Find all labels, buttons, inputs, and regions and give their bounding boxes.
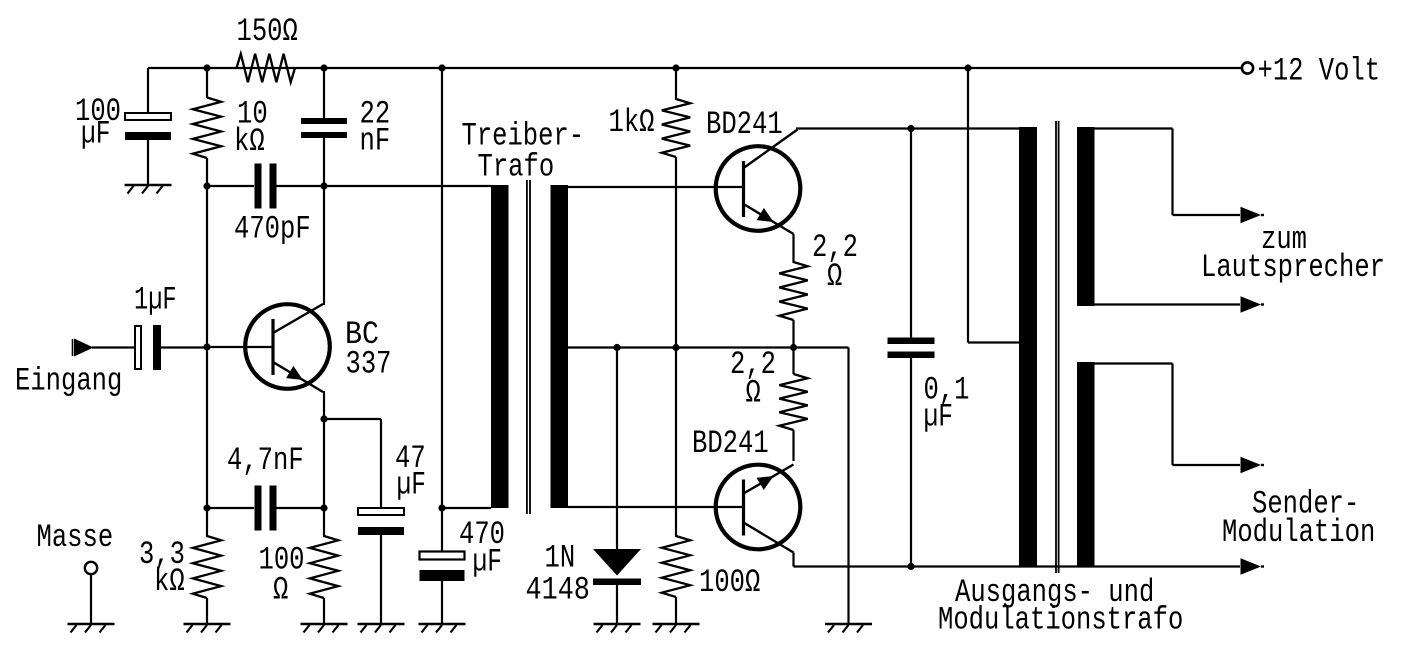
resistor R 2,2 upper: [779, 262, 807, 320]
svg-text:Lautsprecher: Lautsprecher: [1201, 249, 1385, 286]
capacitor C 470uF: [420, 552, 465, 582]
wire R 2,2 lower to Q3 emitter: [792, 430, 794, 461]
svg-text:470pF: 470pF: [234, 211, 311, 248]
resistor R 150: [237, 54, 296, 82]
arrow sender lower: [1241, 558, 1265, 575]
ground under 47uF: [358, 624, 405, 633]
ground under diode: [594, 624, 641, 633]
wire emitter node down: [323, 419, 325, 508]
label +12 Volt: [1258, 53, 1381, 90]
wire Q3 collector down to bottom rail: [792, 553, 794, 567]
label 0,1 uF: [924, 372, 970, 436]
arrow speaker upper: [1241, 207, 1265, 224]
wire base to Q1: [207, 346, 273, 348]
wire Q2 collector to T2: [744, 129, 1020, 169]
svg-text:1µF: 1µF: [134, 282, 177, 319]
wire center node to R 2,2 lower: [792, 348, 794, 375]
svg-text:Modulationstrafo: Modulationstrafo: [938, 602, 1183, 639]
node collector line/C 0,1uF: [907, 125, 914, 132]
capacitor C 22nF: [301, 118, 347, 138]
label Sender- Modulation: [1222, 486, 1375, 552]
wire C 470uF to ground: [441, 581, 443, 624]
capacitor C 1uF: [135, 325, 161, 370]
node collector junction: [320, 182, 327, 189]
ground under 100uF: [125, 185, 172, 194]
wire 442 to primary bottom: [442, 507, 491, 509]
node emitter/4,7nF: [320, 504, 327, 511]
capacitor C 47uF: [358, 508, 404, 535]
svg-text:kΩ: kΩ: [154, 563, 185, 600]
resistor R 100 right: [662, 536, 690, 597]
wire center node to ground drop: [794, 348, 849, 625]
wire emitter node to C 47uF: [324, 419, 381, 508]
terminal Masse: [85, 562, 97, 574]
wire T1 secondary top to Q2 base: [568, 186, 743, 188]
svg-text:Ω: Ω: [273, 572, 288, 609]
svg-text:100Ω: 100Ω: [699, 564, 760, 601]
svg-text:Trafo: Trafo: [478, 149, 555, 186]
label Masse: [37, 519, 114, 556]
wire T1 center tap: [568, 346, 794, 348]
wire +12V top rail: [148, 67, 1241, 69]
resistor R 100 left: [310, 536, 338, 598]
label 150 Ohm: [237, 13, 298, 50]
svg-text:+12 Volt: +12 Volt: [1258, 53, 1381, 90]
wire bottom rail: [794, 565, 1241, 567]
wire input to C 1uF: [92, 346, 135, 348]
svg-text:Ω: Ω: [827, 258, 842, 295]
wire C 100uF to ground: [147, 135, 149, 185]
capacitor C 4,7nF: [255, 486, 277, 531]
label Eingang: [15, 363, 122, 400]
label 2,2 Ohm lower: [730, 346, 776, 412]
node A junction 10k/470pF: [203, 182, 210, 189]
wire C 4,7nF to emitter column: [277, 507, 325, 509]
label Ausgangs- und Modulationstrafo: [938, 574, 1183, 639]
label Treiber-Trafo: [462, 118, 585, 186]
svg-text:BD241: BD241: [706, 106, 783, 143]
node bottom rail/C 0,1uF: [907, 563, 914, 570]
svg-text:nF: nF: [360, 123, 391, 160]
label 100 Ohm left: [259, 542, 305, 609]
node rail/968: [964, 64, 971, 71]
wire Q2 emitter to R 2,2 upper: [792, 234, 794, 263]
terminal input dash: [72, 339, 74, 356]
node base junction: [203, 343, 210, 350]
label 470 uF: [459, 516, 505, 581]
label 470pF: [234, 211, 311, 248]
transformer T2 core: [1056, 121, 1059, 573]
wire to C 0,1uF: [910, 129, 912, 339]
label 10 kOhm: [234, 96, 268, 161]
node center/100R: [672, 344, 679, 351]
label 100 uF: [75, 93, 121, 153]
terminal +12 Volt: [1242, 62, 1253, 73]
wire rail to T2 primary center: [968, 68, 1019, 343]
label 3,3 kOhm: [139, 536, 185, 600]
ground under Masse: [68, 624, 115, 633]
label 22 nF: [360, 96, 391, 160]
wire C 47uF to ground: [380, 532, 382, 624]
wire rail to C 100uF: [147, 68, 149, 113]
wire T1 secondary bottom to Q3 base: [568, 506, 743, 508]
svg-text:µF: µF: [397, 467, 426, 504]
label 1kOhm: [609, 104, 655, 141]
wire R 100 left to ground: [323, 598, 325, 624]
wire collector node down to Q1: [323, 186, 325, 305]
transformer T1 secondary winding: [551, 185, 569, 508]
label 100 Ohm right: [699, 564, 760, 601]
wire node A down to base: [206, 186, 208, 347]
wire D 1N4148 to ground: [616, 585, 618, 624]
ground under 3,3k: [184, 624, 231, 633]
label 2,2 Ohm upper: [812, 229, 858, 295]
wire C 1uF to base node: [161, 346, 207, 348]
svg-text:4,7nF: 4,7nF: [227, 442, 304, 479]
svg-text:BD241: BD241: [692, 425, 769, 462]
transformer T2 secondary lower winding: [1077, 362, 1095, 567]
ground right of Q3: [825, 624, 872, 633]
wire speaker upper: [1094, 129, 1240, 216]
transformer T2 primary winding: [1019, 127, 1037, 567]
arrow sender upper: [1241, 457, 1265, 474]
label zum Lautsprecher: [1201, 221, 1385, 286]
wire C 22nF to collector node: [323, 138, 325, 186]
wire Masse to ground: [90, 574, 92, 624]
node B junction 4,7nF: [203, 504, 210, 511]
node 442/508: [438, 504, 445, 511]
arrow speaker lower: [1241, 296, 1265, 313]
capacitor C 0,1uF: [888, 338, 935, 359]
node rail/442: [438, 64, 445, 71]
resistor R 3,3k: [193, 536, 221, 598]
node emitter/47uF: [320, 415, 327, 422]
svg-text:µF: µF: [81, 116, 110, 153]
label BC 337: [345, 316, 392, 383]
wire 442 down to C 470uF: [441, 508, 443, 551]
wire center to D 1N4148: [616, 348, 618, 550]
wire rail to C 22nF: [323, 68, 325, 119]
resistor R 10k: [193, 98, 221, 159]
wire R 2,2 upper to center node: [792, 320, 794, 348]
wire sender upper: [1094, 364, 1240, 466]
node center/diode: [613, 344, 620, 351]
svg-text:Modulation: Modulation: [1222, 514, 1375, 551]
node rail/10k: [203, 64, 210, 71]
wire node A to C 470pF: [207, 185, 254, 187]
wire R 1k down to center: [675, 157, 677, 348]
svg-text:150Ω: 150Ω: [237, 13, 298, 50]
wire to R 100 left: [323, 508, 325, 537]
svg-text:kΩ: kΩ: [234, 123, 265, 160]
resistor R 1k: [662, 99, 690, 157]
node emitters junction: [790, 344, 797, 351]
label 4,7nF: [227, 442, 304, 479]
ground under R 100 right: [653, 624, 700, 633]
wire C 470pF to collector node: [277, 185, 325, 187]
ground under 470uF: [419, 624, 466, 633]
diode D 1N4148: [593, 549, 641, 585]
wire node B to R 3,3k: [206, 508, 208, 537]
transformer T1 core: [527, 180, 530, 514]
wire rail to R 10k: [206, 68, 208, 98]
svg-text:Eingang: Eingang: [15, 363, 122, 400]
transistor Q3 BD241: [716, 465, 801, 553]
resistor R 2,2 lower: [779, 374, 807, 430]
wire Q1 emitter down: [323, 391, 325, 419]
wire node B to C 4,7nF: [207, 507, 254, 509]
svg-text:µF: µF: [473, 544, 502, 581]
wire collector node to T1 primary: [324, 185, 491, 187]
label 1uF: [134, 282, 177, 319]
svg-text:Masse: Masse: [37, 519, 114, 556]
wire rail down x442: [441, 68, 443, 508]
wire R 10k to node A: [206, 158, 208, 186]
wire base node down: [206, 347, 208, 508]
label BD241 upper: [706, 106, 783, 143]
wire rail to R 1k: [675, 68, 677, 100]
wire R 3,3k to ground: [206, 598, 208, 624]
transformer T2 secondary upper winding: [1077, 127, 1095, 306]
svg-text:1kΩ: 1kΩ: [609, 104, 655, 141]
transistor Q1 BC337: [245, 304, 330, 392]
label BD241 lower: [692, 425, 769, 462]
label 47 uF: [395, 440, 426, 504]
node rail/1k: [672, 64, 679, 71]
svg-text:µF: µF: [924, 399, 953, 436]
transformer T1 primary winding: [491, 185, 509, 508]
wire speaker lower: [1094, 303, 1240, 305]
wire center down to R 100: [675, 348, 677, 538]
ground under R 100 left: [301, 624, 348, 633]
node rail/22nF: [320, 64, 327, 71]
svg-text:4148: 4148: [526, 572, 590, 609]
transistor Q2 BD241: [716, 146, 801, 234]
svg-text:337: 337: [346, 346, 392, 383]
input arrow: [74, 339, 94, 357]
capacitor C 470pF: [255, 164, 277, 209]
capacitor C 100uF: [125, 113, 171, 140]
wire C 0,1uF to bottom rail: [910, 357, 912, 567]
label 1N 4148: [526, 540, 590, 609]
svg-text:Ω: Ω: [746, 375, 761, 412]
wire R 100 right to ground: [675, 597, 677, 624]
